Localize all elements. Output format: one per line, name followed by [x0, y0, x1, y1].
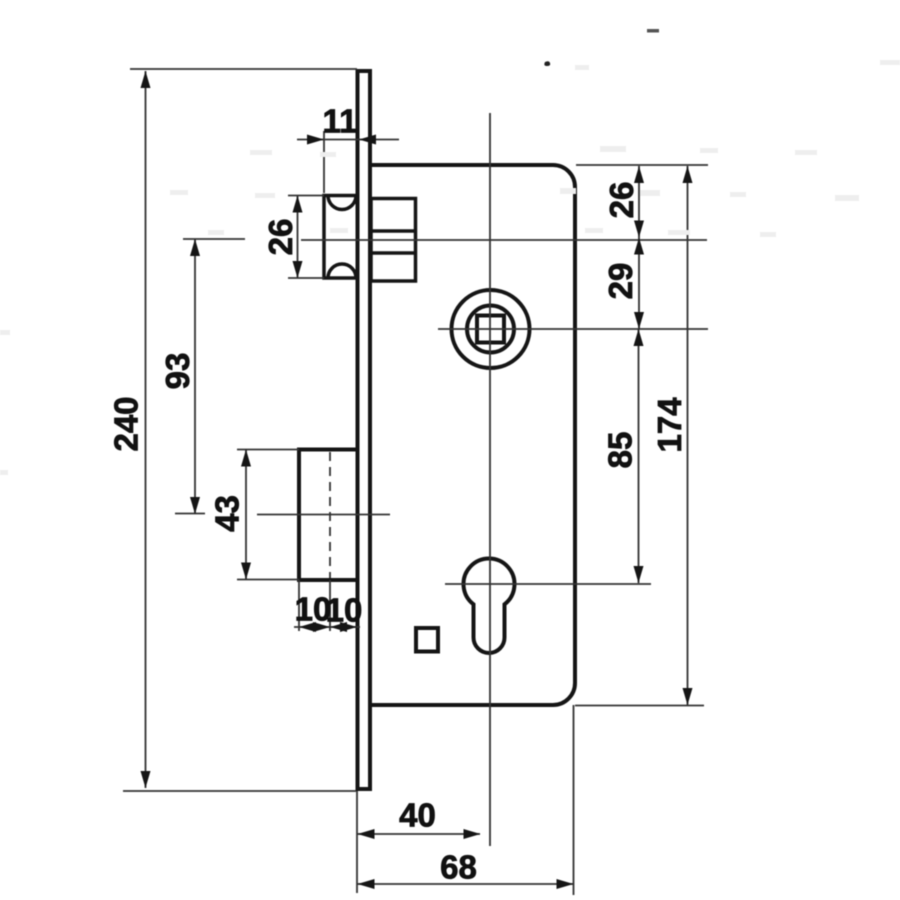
faceplate [358, 71, 371, 789]
extension line body bottom right [575, 705, 704, 707]
euro cylinder keyhole [464, 559, 515, 653]
deadbolt [299, 450, 358, 581]
extension line body top right [576, 164, 708, 166]
dimension 240 [141, 71, 151, 788]
deadbolt hidden centre (dashed) [329, 452, 331, 578]
lock body [371, 165, 575, 705]
dimension 174 [683, 166, 693, 705]
spindle follower hub [452, 290, 530, 368]
extension line latch face [323, 131, 325, 193]
dimension 85 [634, 329, 644, 583]
svg-text:93: 93 [159, 353, 196, 390]
fixing screw square hole [416, 628, 438, 652]
scan noise faint marks [0, 60, 900, 475]
deadbolt centerline left segment [175, 513, 205, 515]
dimension 93 [190, 239, 200, 514]
svg-text:68: 68 [440, 849, 477, 886]
dimension 11 [297, 135, 399, 145]
extension lines latch top/bottom [288, 195, 324, 197]
svg-text:26: 26 [603, 182, 640, 219]
svg-text:11: 11 [323, 103, 358, 140]
extension lines deadbolt 10/10 [298, 580, 300, 631]
latch centerline left segment [183, 238, 245, 240]
dimension 43 [241, 450, 251, 580]
dimension 26 left [293, 196, 303, 279]
dimension 26 right [634, 166, 644, 238]
keyhole centerline [445, 583, 651, 585]
svg-text:85: 85 [602, 432, 639, 469]
latch bolt front (protruding) [324, 196, 358, 279]
deadbolt centerline [257, 514, 390, 516]
dimension 68 [357, 879, 574, 889]
dimension 10 10 [294, 622, 360, 632]
svg-text:26: 26 [262, 219, 299, 256]
dimension 29 [634, 238, 644, 330]
spindle centerline [438, 328, 708, 330]
extension line left faceplate edge down [356, 791, 358, 893]
extension line body right edge down [573, 705, 575, 895]
scan dash [647, 29, 659, 33]
svg-text:43: 43 [209, 495, 246, 532]
extension lines deadbolt top/bottom [237, 449, 299, 451]
svg-text:10: 10 [326, 592, 363, 629]
svg-text:29: 29 [602, 263, 639, 300]
svg-text:240: 240 [108, 396, 145, 451]
svg-text:40: 40 [399, 797, 436, 834]
extension line top of faceplate [130, 68, 357, 70]
svg-text:174: 174 [651, 397, 688, 453]
scan speck [544, 61, 550, 66]
extension line bottom of faceplate [123, 790, 356, 792]
latch bolt rear (inside body) [371, 199, 416, 282]
latch centerline [301, 239, 707, 241]
vertical centerline [489, 113, 491, 846]
dimension 40 [357, 829, 481, 839]
